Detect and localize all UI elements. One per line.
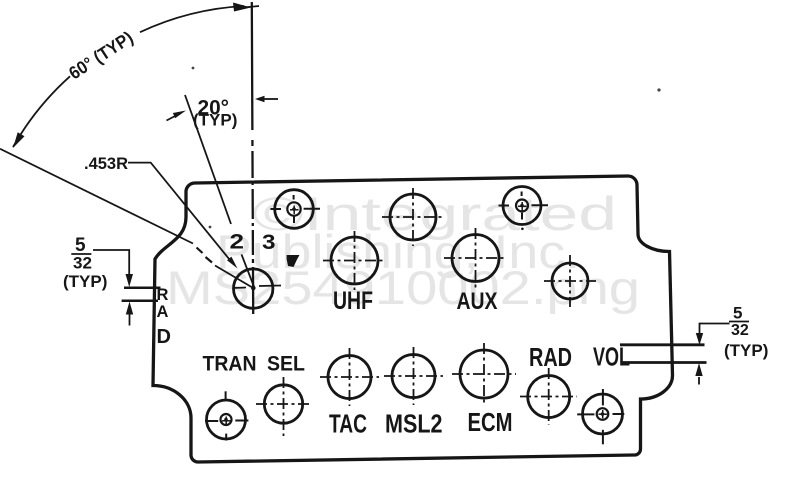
svg-text:AUX: AUX xyxy=(457,288,498,315)
svg-text:SEL: SEL xyxy=(267,352,305,376)
svg-text:MSL2: MSL2 xyxy=(385,411,443,439)
svg-text:32: 32 xyxy=(731,322,749,339)
svg-text:RAD: RAD xyxy=(529,344,572,372)
svg-text:3: 3 xyxy=(262,231,276,254)
svg-text:VOL: VOL xyxy=(593,344,630,372)
svg-text:(TYP): (TYP) xyxy=(63,272,107,291)
svg-text:2: 2 xyxy=(230,230,245,253)
svg-text:(TYP): (TYP) xyxy=(193,111,237,130)
svg-text:R: R xyxy=(157,286,169,304)
svg-text:(TYP): (TYP) xyxy=(724,341,768,360)
svg-text:TRAN: TRAN xyxy=(203,352,257,376)
svg-text:ECM: ECM xyxy=(468,407,513,437)
svg-text:5: 5 xyxy=(733,303,742,322)
svg-text:32: 32 xyxy=(73,253,92,272)
svg-text:TAC: TAC xyxy=(329,411,367,439)
svg-text:A: A xyxy=(157,303,169,321)
svg-text:D: D xyxy=(157,326,171,348)
svg-text:UHF: UHF xyxy=(333,287,373,315)
svg-text:.453R: .453R xyxy=(84,155,128,173)
